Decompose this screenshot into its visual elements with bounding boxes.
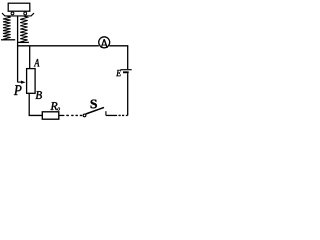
wire: top wire from rod to ammeter xyxy=(18,45,99,47)
dashed wire to right corner xyxy=(119,114,125,116)
wire ammeter to top-right corner and down xyxy=(109,46,127,69)
label A (ammeter letter, drawn as path) xyxy=(101,39,108,47)
cart wheel left xyxy=(11,12,14,15)
label E (battery) xyxy=(116,70,121,76)
switch right contact xyxy=(105,111,107,115)
cart (object on scale pan) xyxy=(8,3,30,11)
battery E short plate xyxy=(123,71,129,73)
slider rod xyxy=(17,16,19,82)
dashed wire to switch xyxy=(66,114,82,116)
label R0 (protective resistor) xyxy=(50,102,57,110)
scale pan xyxy=(2,13,34,16)
label A (rheostat top terminal) xyxy=(34,59,40,67)
wire battery down to bottom wire xyxy=(127,73,129,115)
bottom right corner stub xyxy=(126,114,128,116)
wire below rheostat to bottom wire xyxy=(29,93,42,115)
switch S pivot xyxy=(83,114,86,117)
wire: junction down to rheostat terminal A xyxy=(29,46,31,69)
label B (rheostat bottom terminal) xyxy=(36,91,42,99)
spring left xyxy=(3,16,11,39)
spring right xyxy=(20,16,27,42)
cart wheel right xyxy=(24,12,27,15)
battery E long plate xyxy=(120,69,131,71)
label P (slider) xyxy=(14,85,22,95)
resistor R0 body xyxy=(42,112,59,119)
switch blade xyxy=(86,107,104,114)
rheostat R body xyxy=(27,69,35,94)
ground base left xyxy=(1,39,15,41)
bottom wire right of switch xyxy=(106,114,117,116)
label S (switch) xyxy=(91,100,97,109)
slider arrow toward rheostat xyxy=(18,81,22,83)
ground base right xyxy=(18,41,29,43)
wire R0 right solid stub xyxy=(59,114,65,116)
ammeter xyxy=(99,37,110,48)
